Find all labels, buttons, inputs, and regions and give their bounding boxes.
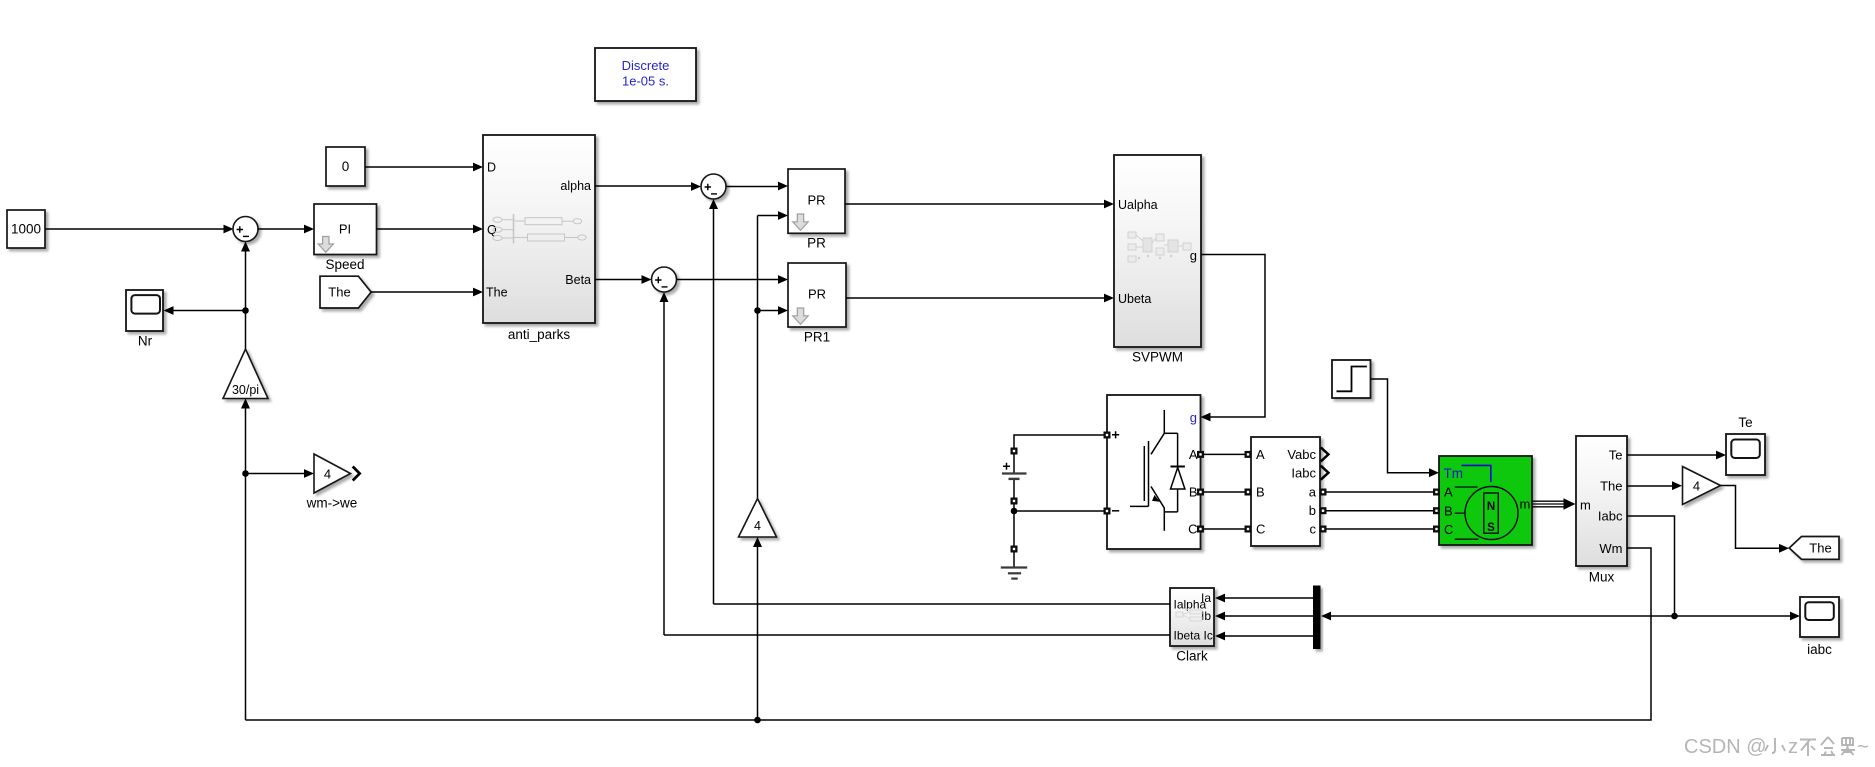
watermark CSDN bbox=[1684, 736, 1869, 758]
svg-text:Clark: Clark bbox=[1176, 649, 1208, 664]
svg-text:C: C bbox=[1188, 521, 1197, 536]
svg-text:CSDN @: CSDN @ bbox=[1684, 736, 1767, 758]
svg-text:C: C bbox=[1256, 522, 1265, 537]
wire alpha to sum2 bbox=[595, 182, 701, 191]
goto tag The (right) bbox=[1789, 537, 1839, 560]
svg-text:Ib: Ib bbox=[1201, 609, 1211, 623]
svg-text:Wm: Wm bbox=[1599, 541, 1622, 556]
wire PI to anti_parks Q bbox=[377, 225, 484, 234]
dc source battery symbol bbox=[1002, 463, 1027, 479]
svg-text:PI: PI bbox=[339, 222, 351, 237]
ground symbol bbox=[1001, 568, 1027, 579]
dc port pads bbox=[1011, 448, 1018, 553]
wire Ialpha vertical x714 into sum2 bottom bbox=[709, 199, 718, 604]
measurement Vabc Iabc chevrons bbox=[1321, 447, 1329, 479]
wire PR1 to SVPWM Ubeta bbox=[846, 294, 1114, 303]
wire 0 to anti_parks D bbox=[365, 163, 483, 172]
svg-text:B: B bbox=[1256, 485, 1265, 500]
PR controller block PR bbox=[788, 169, 845, 251]
svg-text:4: 4 bbox=[1693, 479, 1700, 494]
svg-text:N: N bbox=[1487, 501, 1495, 513]
subsystem SVPWM bbox=[1114, 155, 1201, 365]
sum junction alpha bbox=[701, 174, 726, 199]
svg-text:SVPWM: SVPWM bbox=[1132, 350, 1183, 365]
subsystem Clark bbox=[1170, 588, 1214, 664]
wire Beta to sum3 bbox=[595, 275, 652, 284]
SVPWM preview art bbox=[1128, 232, 1191, 262]
wire theta branch to PR1 second input bbox=[758, 306, 789, 315]
scope iabc bbox=[1800, 597, 1839, 657]
svg-text:B: B bbox=[1189, 484, 1198, 499]
wire measurement a to motor A bbox=[1327, 491, 1434, 493]
From tag The (left) bbox=[320, 276, 371, 308]
scope Te bbox=[1726, 415, 1765, 475]
svg-text:Iabc: Iabc bbox=[1598, 509, 1623, 524]
wire The tag to anti_parks The bbox=[371, 288, 483, 297]
node theta branch PR1 bbox=[754, 307, 761, 314]
wire feedback vertical x245 lower segment into 30/pi bbox=[241, 399, 250, 721]
svg-text:Tm: Tm bbox=[1444, 466, 1464, 481]
svg-text:Q: Q bbox=[487, 223, 497, 237]
wire inverter C to measurement C bbox=[1204, 528, 1245, 530]
DC source wires bbox=[1014, 435, 1104, 567]
inverter IGBT and diode icon bbox=[1130, 410, 1185, 531]
wire measurement c to motor C bbox=[1327, 528, 1434, 530]
wire sum3 to PR1 bbox=[677, 275, 789, 284]
wire Clark Ialpha to sum2 line bbox=[714, 603, 1171, 605]
step block bbox=[1332, 360, 1371, 398]
svg-text:The: The bbox=[486, 286, 508, 300]
svg-text:PR: PR bbox=[808, 287, 826, 302]
wire gain4 to The goto tag bbox=[1721, 486, 1790, 553]
node iabc junction bbox=[1671, 613, 1678, 620]
wire sum2 to PR bbox=[726, 182, 788, 191]
svg-text:Ualpha: Ualpha bbox=[1118, 198, 1158, 212]
wire 30/pi to sum1 bottom bbox=[241, 242, 250, 350]
svg-text:B: B bbox=[1444, 504, 1453, 519]
wire theta vertical x757 to PR second input bbox=[758, 211, 789, 498]
wire Mux Te to Te scope bbox=[1627, 451, 1726, 460]
scope Nr bbox=[126, 290, 163, 349]
wire Mux Wm feedback to bottom bbox=[246, 548, 1652, 720]
svg-text:Speed: Speed bbox=[325, 257, 364, 272]
wire iabc to demux bbox=[1321, 612, 1675, 621]
svg-text:wm->we: wm->we bbox=[306, 496, 358, 511]
wire branch to Nr scope bbox=[164, 306, 246, 315]
svg-text:z: z bbox=[1788, 736, 1798, 758]
svg-text:Ubeta: Ubeta bbox=[1118, 292, 1151, 306]
svg-text:The: The bbox=[1600, 479, 1622, 494]
wire step to motor Tm bbox=[1371, 379, 1440, 477]
wire PR to SVPWM Ualpha bbox=[845, 200, 1114, 209]
inverter bridge block bbox=[1107, 395, 1201, 549]
svg-text:a: a bbox=[1309, 485, 1317, 500]
wire branch to wm-we gain bbox=[246, 469, 315, 478]
wire iabc to iabc scope bbox=[1675, 612, 1801, 621]
gain 4 (The) bbox=[1683, 467, 1721, 505]
annotation Discrete 1e-05 s. bbox=[595, 48, 696, 101]
sum junction speed error bbox=[233, 217, 258, 242]
wire Mux The to gain 4 bbox=[1627, 481, 1682, 490]
svg-text:D: D bbox=[487, 161, 496, 175]
svg-text:alpha: alpha bbox=[560, 179, 591, 193]
wire demux to Clark Ib bbox=[1215, 612, 1313, 621]
svg-text:C: C bbox=[1444, 522, 1453, 537]
svg-text:Nr: Nr bbox=[138, 334, 153, 349]
measurement port pads bbox=[1245, 451, 1327, 533]
constant 1000 bbox=[7, 210, 45, 248]
bus selector Mux bbox=[1576, 436, 1627, 585]
svg-text:m: m bbox=[1580, 497, 1591, 512]
wire demux to Clark Ia bbox=[1215, 594, 1313, 603]
svg-text:1e-05 s.: 1e-05 s. bbox=[622, 74, 669, 89]
svg-text:S: S bbox=[1487, 522, 1495, 534]
svg-text:A: A bbox=[1444, 485, 1453, 500]
svg-text:1000: 1000 bbox=[11, 222, 41, 237]
svg-text:4: 4 bbox=[324, 467, 331, 482]
demux bar bbox=[1313, 586, 1321, 650]
gain 4 (angle) pointing up bbox=[739, 499, 777, 538]
svg-text:PR: PR bbox=[807, 236, 826, 251]
Clark preview art bbox=[1176, 609, 1202, 621]
svg-text:b: b bbox=[1309, 503, 1316, 518]
node branch Nr bbox=[242, 307, 249, 314]
wire motor m bus to Mux (triple line) bbox=[1533, 501, 1566, 507]
svg-text:iabc: iabc bbox=[1807, 642, 1832, 657]
svg-text:0: 0 bbox=[342, 159, 350, 174]
node bottom feedback branch bbox=[754, 717, 761, 724]
wire demux to Clark Ic bbox=[1215, 632, 1313, 641]
svg-text:Te: Te bbox=[1609, 448, 1623, 463]
svg-text:A: A bbox=[1256, 447, 1265, 462]
svg-text:~: ~ bbox=[1857, 736, 1869, 758]
svg-text:Vabc: Vabc bbox=[1287, 447, 1316, 462]
svg-text:The: The bbox=[1809, 541, 1831, 556]
wire bottom feedback into gain4 bbox=[753, 537, 762, 720]
svg-text:Mux: Mux bbox=[1589, 570, 1615, 585]
PR controller block PR1 bbox=[788, 263, 846, 345]
svg-text:m: m bbox=[1520, 496, 1531, 511]
svg-text:30/pi: 30/pi bbox=[232, 383, 259, 397]
svg-text:4: 4 bbox=[754, 519, 761, 533]
svg-text:Te: Te bbox=[1738, 415, 1752, 430]
wire sum1 to PI bbox=[258, 225, 314, 234]
svg-text:g: g bbox=[1190, 410, 1197, 425]
svg-text:PR: PR bbox=[807, 193, 825, 208]
svg-text:Ibeta Ic: Ibeta Ic bbox=[1174, 629, 1213, 643]
svg-text:The: The bbox=[328, 285, 350, 300]
subsystem anti_parks bbox=[483, 135, 595, 342]
wire Ibeta vertical x664 into sum3 bottom bbox=[660, 292, 669, 635]
svg-text:anti_parks: anti_parks bbox=[508, 327, 571, 342]
PMSM motor block (green) bbox=[1439, 456, 1532, 545]
wire inverter B to measurement B bbox=[1204, 491, 1245, 493]
inverter port pads bbox=[1104, 432, 1205, 533]
wire Clark Ibeta to sum3 line bbox=[664, 634, 1170, 636]
wire measurement b to motor B bbox=[1327, 510, 1434, 512]
node branch wm-we bbox=[242, 470, 249, 477]
svg-text:Discrete: Discrete bbox=[622, 58, 670, 73]
wire 1000 to sum1 bbox=[45, 225, 234, 234]
gain wm->we bbox=[306, 454, 360, 511]
motor port pads bbox=[1433, 489, 1440, 533]
gain 30/pi bbox=[223, 349, 268, 399]
wire inverter A to measurement A bbox=[1204, 453, 1245, 455]
PI controller block Speed bbox=[314, 204, 377, 272]
wire SVPWM g to inverter g bbox=[1201, 255, 1266, 422]
wire Mux Iabc down to iabc bus line bbox=[1627, 516, 1675, 616]
sum junction beta bbox=[652, 267, 677, 292]
constant 0 bbox=[326, 147, 365, 186]
node dc minus junction bbox=[1011, 508, 1018, 515]
anti_parks preview art bbox=[493, 214, 586, 244]
svg-text:A: A bbox=[1189, 447, 1198, 462]
svg-text:Beta: Beta bbox=[565, 273, 591, 287]
svg-text:PR1: PR1 bbox=[804, 330, 830, 345]
svg-text:c: c bbox=[1310, 522, 1317, 537]
three-phase measurement block bbox=[1251, 437, 1320, 546]
svg-text:Iabc: Iabc bbox=[1291, 465, 1316, 480]
